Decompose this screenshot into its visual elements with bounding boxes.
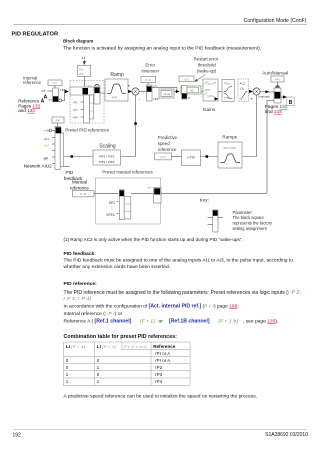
wire RP tick bbox=[52, 156, 55, 158]
svg-text:The PID reference must be assi: The PID reference must be assigned to th… bbox=[64, 290, 302, 296]
svg-text:P I I: P I I bbox=[53, 81, 58, 85]
svg-text:rPI or A: rPI or A bbox=[155, 351, 170, 356]
svg-text:The black square: The black square bbox=[233, 215, 265, 220]
parameter box PIC bbox=[141, 77, 156, 83]
PID gains box RPG/rIG/rdG bbox=[203, 79, 218, 101]
svg-text:Manual: Manual bbox=[72, 180, 87, 185]
svg-text:Internal reference (r P I) or: Internal reference (r P I) or bbox=[64, 311, 123, 317]
svg-text:The function is activated by a: The function is activated by assigning a… bbox=[63, 45, 261, 51]
feedback mux box 2 bbox=[60, 133, 63, 167]
SP mux box 2 bbox=[124, 197, 131, 220]
rSL switch bbox=[182, 86, 188, 100]
summing junction 2 bbox=[253, 88, 260, 95]
predictive feed line bbox=[242, 95, 257, 156]
svg-text:represents the factory: represents the factory bbox=[233, 221, 274, 226]
svg-text:ACC DEC: ACC DEC bbox=[222, 146, 237, 150]
svg-text:Restart error: Restart error bbox=[194, 57, 219, 62]
wire PAU to switch bbox=[277, 82, 279, 85]
svg-text:In accordance with the configu: In accordance with the configuration of … bbox=[64, 304, 239, 310]
svg-text:LI (P r 4): LI (P r 4) bbox=[66, 344, 86, 349]
svg-text:A predictive speed reference c: A predictive speed reference can be used… bbox=[64, 394, 258, 400]
wire from Pr box to selector bbox=[83, 76, 85, 87]
svg-text:P I M: P I M bbox=[80, 192, 87, 196]
output arrow to B bbox=[281, 96, 283, 98]
svg-text:YES: YES bbox=[153, 97, 159, 101]
dashed box preset PID references bbox=[70, 81, 104, 124]
parameter box FPI bbox=[155, 153, 172, 160]
svg-text:AI1: AI1 bbox=[44, 137, 49, 141]
svg-text:Reference: Reference bbox=[153, 344, 176, 349]
summing junction bbox=[132, 88, 139, 95]
svg-text:Preset PID references: Preset PID references bbox=[65, 128, 109, 133]
open circle tick bbox=[47, 129, 49, 131]
svg-text:(1): (1) bbox=[240, 86, 243, 90]
bypass wire bbox=[152, 87, 177, 91]
parameter box rSL bbox=[179, 76, 194, 82]
scaling box bbox=[93, 150, 121, 165]
svg-text:Ramp: Ramp bbox=[110, 72, 124, 78]
svg-text:S1A28692 03/2010: S1A28692 03/2010 bbox=[265, 432, 308, 438]
svg-text:whether any extension cards ha: whether any extension cards have been in… bbox=[64, 264, 171, 270]
wire LI down arrow bbox=[83, 60, 85, 62]
svg-text:B: B bbox=[289, 100, 293, 106]
svg-text:Network AIU2: Network AIU2 bbox=[24, 164, 53, 169]
wire rPI tick bbox=[47, 90, 52, 92]
svg-text:Parameter:: Parameter: bbox=[233, 210, 253, 215]
svg-text:reference: reference bbox=[70, 185, 90, 190]
SP selected square bbox=[120, 190, 124, 196]
svg-text:rP3: rP3 bbox=[155, 372, 163, 377]
svg-text:rIG: rIG bbox=[207, 82, 211, 86]
preset PID selection box Pr2/Pr4 bbox=[78, 65, 91, 76]
wiper pivot circle bbox=[59, 99, 62, 102]
svg-text:F P I: F P I bbox=[160, 155, 166, 159]
svg-text:Pr2 -: Pr2 - bbox=[79, 67, 85, 71]
svg-text:and 133: and 133 bbox=[18, 108, 35, 113]
SP mux box 1 bbox=[119, 190, 124, 220]
svg-text:RP: RP bbox=[44, 157, 49, 161]
svg-text:PID: PID bbox=[66, 170, 74, 175]
svg-text:threshold: threshold bbox=[198, 63, 217, 68]
svg-text:Key:: Key: bbox=[200, 198, 209, 203]
junction arrow into selector bbox=[65, 90, 69, 93]
svg-text:P I C: P I C bbox=[145, 78, 151, 82]
mux box 1 (rP2-rP4) bbox=[84, 95, 90, 123]
svg-text:r S L: r S L bbox=[184, 77, 190, 81]
wire AIU2 tick bbox=[52, 163, 55, 165]
combination table borders bbox=[64, 342, 191, 385]
wire rSL to gains bbox=[201, 91, 203, 93]
switch nO output bbox=[95, 84, 99, 88]
switch rPI/A (PII) bbox=[53, 88, 59, 102]
wire AI2 tick bbox=[52, 143, 55, 145]
feedback selected square bbox=[56, 127, 62, 133]
wire mux to scaling bbox=[64, 156, 93, 158]
multiplier x PSr box bbox=[182, 150, 201, 166]
footer rule bbox=[13, 429, 307, 431]
wire rP2 tick bbox=[81, 101, 84, 103]
wire PIF to mux bbox=[57, 123, 59, 127]
parameter box PIM bbox=[73, 191, 95, 197]
svg-text:r P 3, r P 4): r P 3, r P 4) bbox=[64, 296, 92, 302]
svg-text:Predictive: Predictive bbox=[158, 135, 178, 140]
svg-text:POH: POH bbox=[224, 82, 230, 86]
svg-text:(manual): (manual) bbox=[258, 95, 269, 99]
svg-text:Pr4: Pr4 bbox=[79, 72, 84, 76]
rSL inner green box bbox=[186, 87, 199, 92]
svg-text:LI (P r 2): LI (P r 2) bbox=[97, 344, 117, 349]
svg-text:AC2: AC2 bbox=[240, 82, 246, 86]
arrow AC2 to summer 2 bbox=[249, 90, 253, 93]
svg-text:Preset manual references: Preset manual references bbox=[102, 170, 153, 175]
svg-text:speed: speed bbox=[158, 141, 171, 146]
wire selector to ramp bbox=[100, 92, 105, 94]
rSL stage outer rect bbox=[181, 86, 201, 94]
wire PII to switch bbox=[54, 85, 56, 88]
svg-text:SP16: SP16 bbox=[106, 213, 114, 217]
wire PSr to ramp2 bbox=[201, 156, 219, 158]
preset manual box bbox=[96, 178, 161, 224]
svg-text:Ramps: Ramps bbox=[222, 134, 237, 139]
switch auto/manual bbox=[276, 86, 279, 89]
svg-text:PIP1 / PIP2: PIP1 / PIP2 bbox=[99, 160, 115, 164]
wire rP4 tick bbox=[81, 116, 84, 118]
svg-text:rPI or A: rPI or A bbox=[155, 358, 170, 363]
wire switch to manual line bbox=[161, 192, 267, 194]
preset selector rect bbox=[70, 87, 95, 95]
svg-text:rPI: rPI bbox=[41, 89, 45, 93]
svg-text:Scaling: Scaling bbox=[99, 143, 116, 149]
arrow into rSL stage bbox=[174, 91, 176, 93]
parameter box PAU bbox=[271, 76, 284, 82]
limiter box POH/POL bbox=[222, 79, 234, 101]
manual wire bbox=[267, 100, 274, 193]
svg-text:AI2: AI2 bbox=[43, 144, 49, 148]
svg-text:Auto/Manual: Auto/Manual bbox=[262, 71, 288, 76]
switch error inversion bbox=[146, 85, 152, 101]
ramp box ACC DEC bbox=[218, 142, 242, 168]
feedback line to summer bbox=[121, 95, 136, 156]
svg-text:RPG: RPG bbox=[205, 88, 211, 92]
legend switch symbol bbox=[213, 210, 218, 232]
svg-text:(wake-up): (wake-up) bbox=[197, 69, 217, 74]
svg-text:PID reference:: PID reference: bbox=[64, 281, 98, 287]
input arrow to summer bbox=[128, 90, 132, 93]
svg-text:rP2: rP2 bbox=[155, 365, 163, 370]
wire PIM to SP mux bbox=[94, 192, 119, 194]
table data rows bbox=[66, 351, 170, 384]
svg-text:rP4: rP4 bbox=[155, 379, 163, 384]
svg-text:Combination table for preset P: Combination table for preset PID referen… bbox=[64, 334, 178, 340]
wire summer2 to switch bbox=[260, 91, 265, 93]
svg-text:rSL: rSL bbox=[190, 89, 195, 92]
multiplier x(-1) box bbox=[159, 89, 174, 98]
wire summer to inversion bbox=[139, 91, 146, 93]
wire rP3 tick bbox=[81, 109, 84, 111]
svg-text:x (-1): x (-1) bbox=[163, 92, 170, 96]
wire A tick bbox=[49, 99, 53, 101]
node B bbox=[287, 97, 295, 106]
junction mark on feedback line bbox=[134, 122, 137, 125]
svg-text:PAU: PAU bbox=[275, 77, 280, 81]
svg-text:and 133: and 133 bbox=[265, 109, 282, 114]
wire PIC to switch bbox=[147, 83, 149, 86]
svg-text:setting assignment: setting assignment bbox=[233, 226, 268, 231]
svg-text:x PSr: x PSr bbox=[187, 156, 196, 160]
svg-text:SP2: SP2 bbox=[109, 201, 115, 205]
wire gains to limiter bbox=[218, 91, 222, 93]
svg-text:rP2: rP2 bbox=[73, 100, 78, 104]
wire mux to switch bbox=[131, 192, 154, 194]
svg-text:Error: Error bbox=[145, 63, 155, 68]
ramp box PrP bbox=[105, 79, 128, 101]
mux box 2 bbox=[90, 95, 94, 119]
svg-text:PID REGULATOR: PID REGULATOR bbox=[12, 32, 59, 38]
svg-text:PID feedback:: PID feedback: bbox=[64, 251, 97, 257]
switch manual preset bbox=[154, 188, 162, 204]
table header row bbox=[66, 344, 176, 349]
svg-text:PrP: PrP bbox=[112, 95, 117, 99]
dots bbox=[111, 206, 113, 211]
svg-text:inversion: inversion bbox=[142, 68, 160, 73]
parameter box PIF (feedback select) bbox=[52, 117, 64, 123]
svg-text:rdG: rdG bbox=[207, 94, 211, 98]
feedback mux box 1 bbox=[55, 127, 60, 170]
svg-text:Configuration Mode (ConF): Configuration Mode (ConF) bbox=[244, 18, 307, 24]
svg-text:(1) Ramp AC2 is only active wh: (1) Ramp AC2 is only active when the PID… bbox=[64, 237, 243, 242]
svg-text:rP3: rP3 bbox=[73, 108, 78, 112]
wire AI1 tick bbox=[52, 137, 55, 139]
svg-text:The PID feedback must be assig: The PID feedback must be assigned to one… bbox=[64, 258, 294, 264]
svg-text:Block diagram: Block diagram bbox=[63, 39, 93, 44]
wire FPI to PSr bbox=[172, 156, 182, 158]
svg-text:reference: reference bbox=[23, 80, 42, 85]
selector black square bbox=[83, 88, 89, 94]
svg-text:Gains: Gains bbox=[203, 107, 216, 113]
svg-text:PIF: PIF bbox=[56, 119, 60, 122]
AC2 ramp box (dashed) bbox=[238, 79, 248, 102]
svg-text:rP4: rP4 bbox=[73, 115, 78, 119]
svg-text:PIF1 / PIF2: PIF1 / PIF2 bbox=[99, 155, 115, 159]
svg-text:Reference A ([Ref.1 channel](F: Reference A ([Ref.1 channel](F r 1)or[Re… bbox=[64, 318, 279, 324]
parameter box PII bbox=[48, 80, 62, 85]
pointer arrow to rSL bbox=[196, 75, 206, 81]
svg-text:P r 2 = n O: P r 2 = n O bbox=[124, 344, 147, 349]
wire A switch to preset selector bbox=[62, 92, 65, 101]
svg-text:192: 192 bbox=[13, 432, 22, 438]
svg-text:reference: reference bbox=[158, 147, 177, 152]
wire AI3 tick bbox=[52, 150, 55, 152]
svg-text:LI: LI bbox=[82, 55, 85, 60]
